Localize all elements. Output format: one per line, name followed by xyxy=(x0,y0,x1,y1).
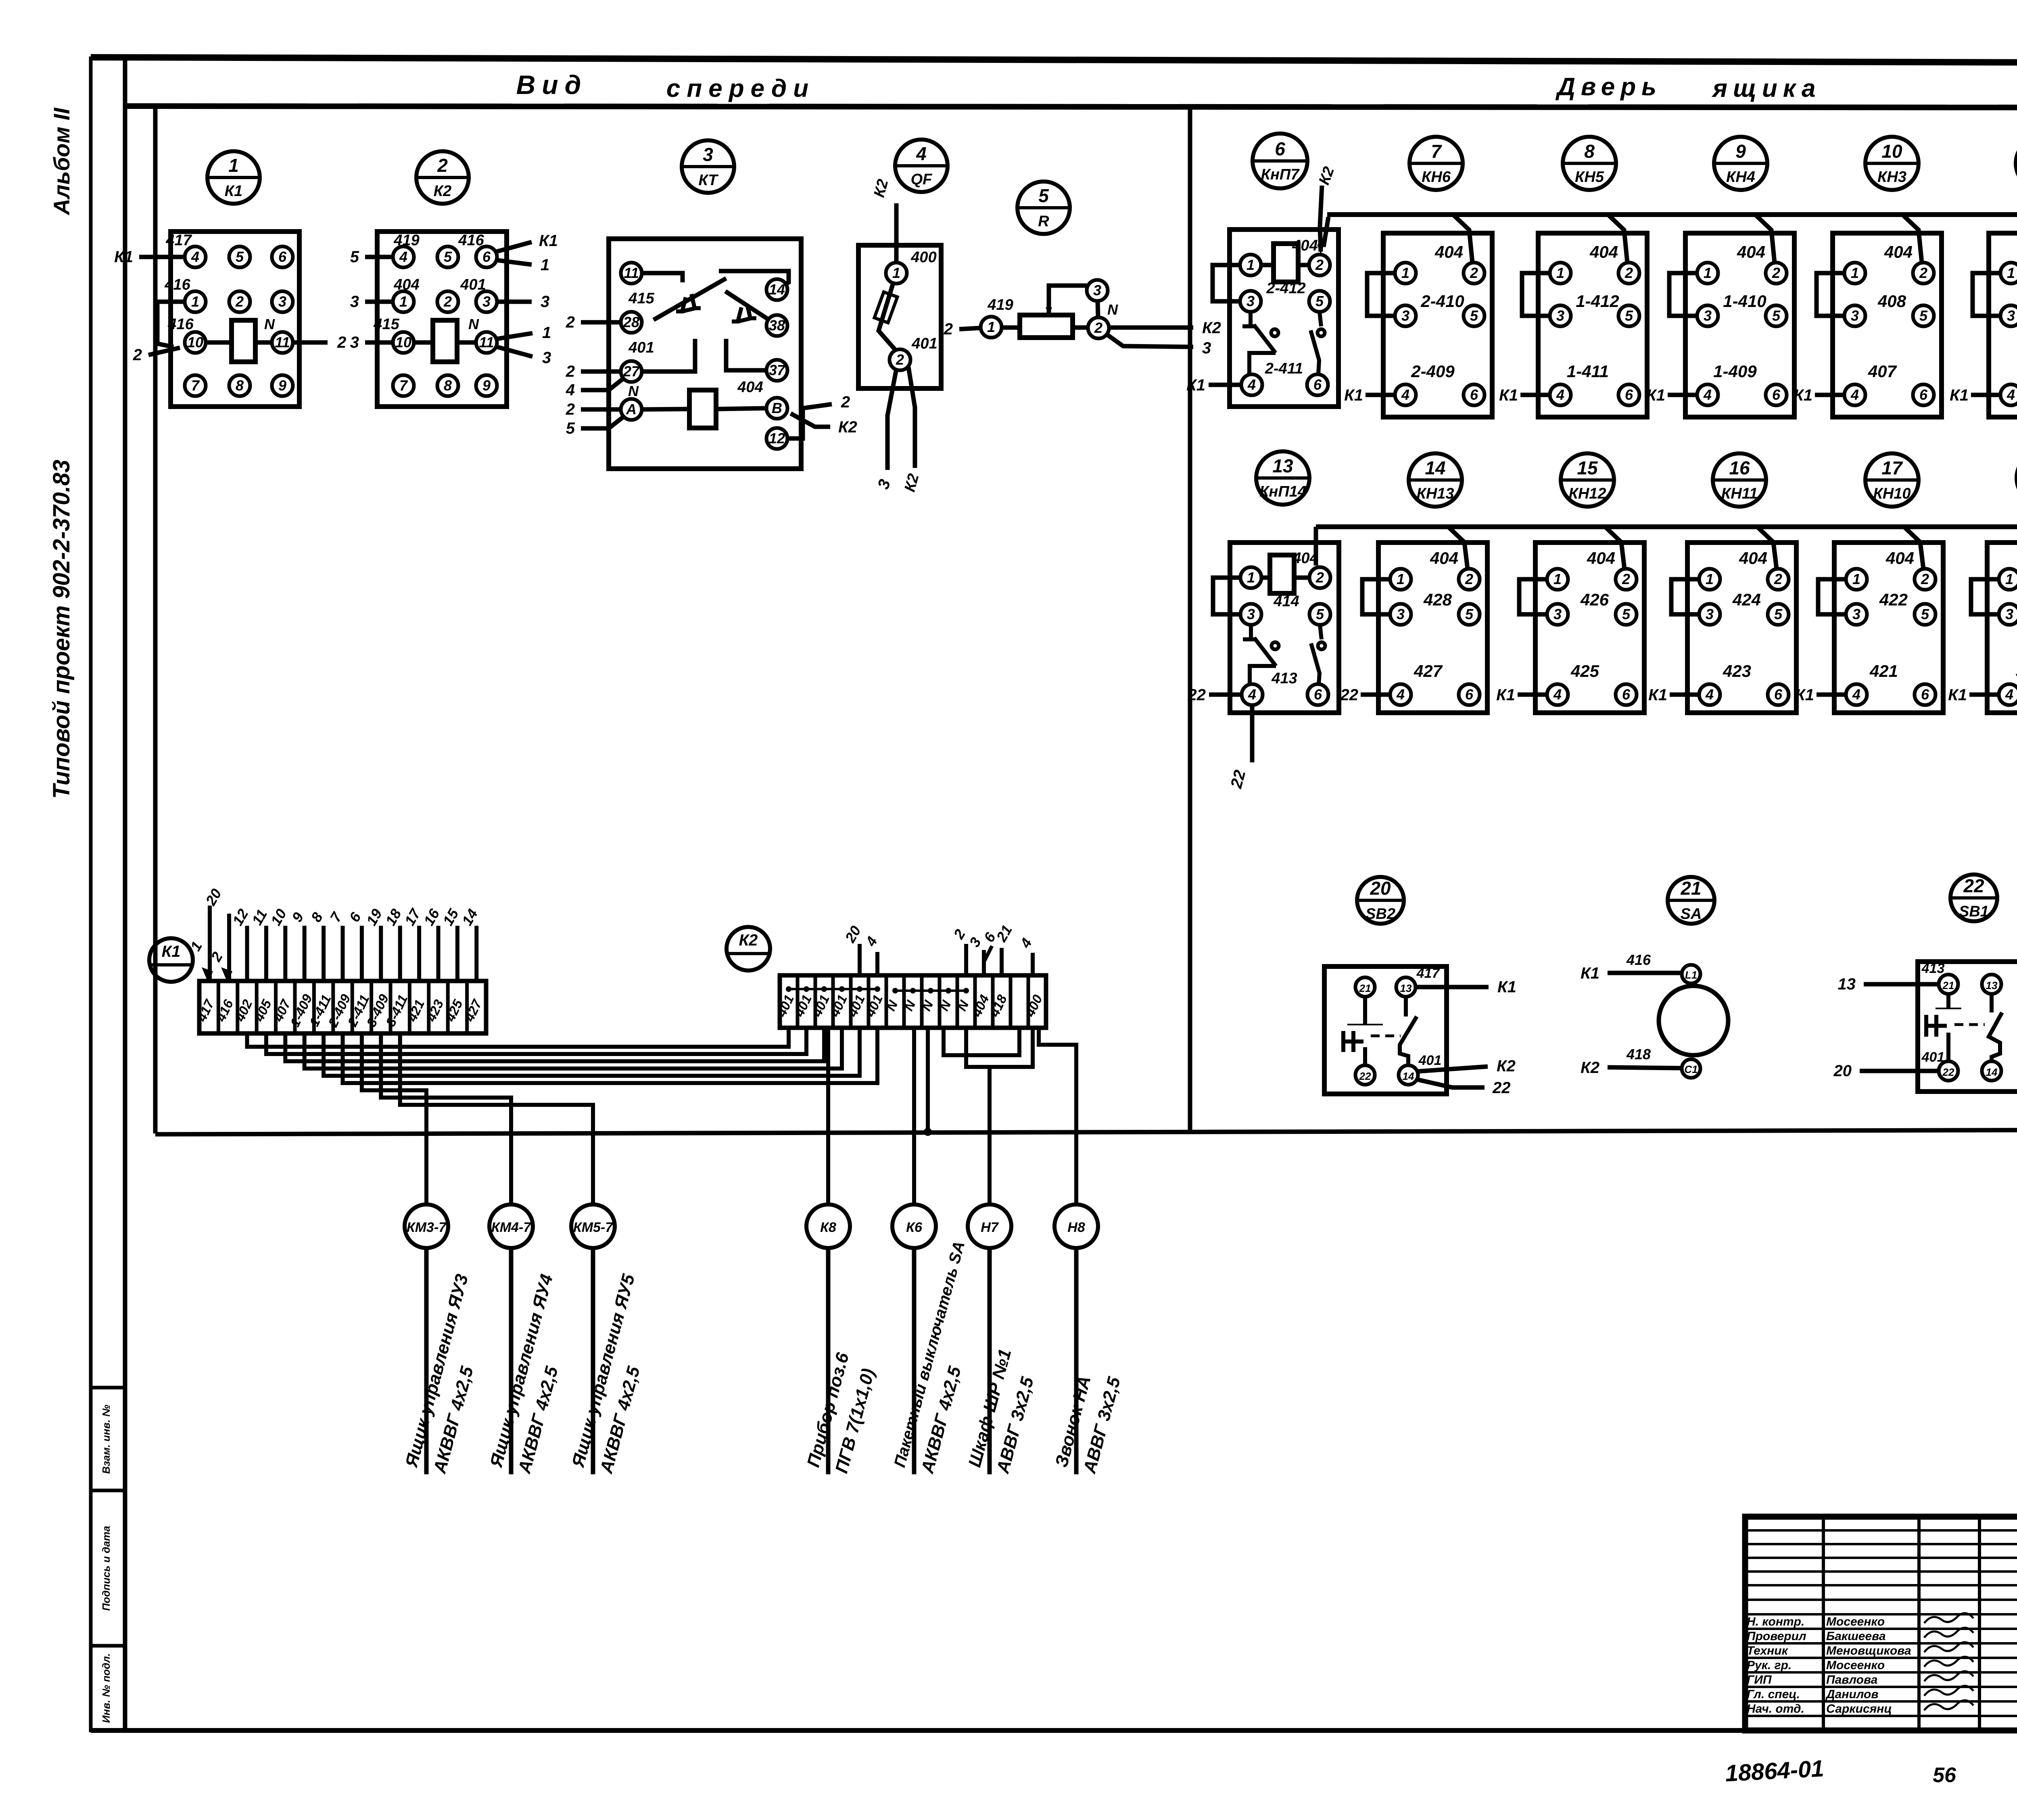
pin 1 xyxy=(1240,567,1261,588)
svg-text:14: 14 xyxy=(769,281,785,298)
timed contact 1 arm xyxy=(654,278,726,320)
SB2 NC contact with plunger xyxy=(1363,997,1367,1025)
block outline xyxy=(1987,543,2017,713)
svg-text:401: 401 xyxy=(628,339,654,356)
svg-text:QF: QF xyxy=(911,171,933,188)
svg-text:КН3: КН3 xyxy=(1877,169,1906,186)
pin 3 xyxy=(1550,305,1571,326)
wire coil-11 xyxy=(255,340,272,345)
K2 pin 2 xyxy=(437,291,458,312)
wire coil-11 xyxy=(457,340,476,345)
pin 3 xyxy=(2000,305,2017,326)
svg-text:Взам. инв. №: Взам. инв. № xyxy=(100,1405,112,1474)
svg-text:416: 416 xyxy=(458,232,484,249)
pin 1 xyxy=(1240,255,1261,276)
svg-text:15: 15 xyxy=(1577,457,1598,478)
svg-text:К2: К2 xyxy=(739,931,758,949)
timed contact 1 fork xyxy=(676,297,686,311)
svg-text:К1: К1 xyxy=(1581,964,1599,982)
K1 strip feeder 1 with arrow xyxy=(208,906,212,981)
pin 6 xyxy=(1616,684,1637,705)
margin box Подпись и дата xyxy=(91,1490,125,1646)
lead K2 from pin B xyxy=(791,413,830,427)
block outline xyxy=(1383,233,1492,417)
component id circle 13/КнП14 xyxy=(1256,451,1309,505)
svg-text:3: 3 xyxy=(1556,307,1564,324)
svg-text:К1: К1 xyxy=(1186,376,1205,394)
svg-text:5: 5 xyxy=(1038,185,1049,206)
pin 3 xyxy=(1240,604,1261,625)
cable line К6 xyxy=(912,1248,917,1474)
svg-text:1: 1 xyxy=(1706,571,1714,587)
svg-text:2: 2 xyxy=(1315,257,1324,273)
lead 22 from pin 14 xyxy=(1417,1079,1485,1087)
block outline xyxy=(1687,543,1796,713)
svg-text:1: 1 xyxy=(541,256,549,274)
svg-text:5: 5 xyxy=(444,248,452,265)
svg-text:21: 21 xyxy=(1359,982,1371,994)
jumper wire pins 1-3 xyxy=(1522,273,1550,316)
svg-text:56: 56 xyxy=(1933,1764,1956,1787)
relay KN3 (item 10) xyxy=(1794,215,1942,417)
K2 pin 6 xyxy=(476,246,497,267)
component id circle 2/К2 xyxy=(416,151,469,204)
svg-text:417: 417 xyxy=(165,232,192,249)
pin 5 xyxy=(1915,604,1936,625)
svg-text:5: 5 xyxy=(1622,606,1631,622)
svg-text:5: 5 xyxy=(1921,606,1929,622)
svg-text:3: 3 xyxy=(542,349,551,367)
svg-text:10: 10 xyxy=(1881,141,1902,162)
KT pin 11 xyxy=(621,263,642,284)
svg-text:Подпись и дата: Подпись и дата xyxy=(100,1526,112,1611)
margin box Взам. инв. № xyxy=(91,1388,125,1490)
svg-text:408: 408 xyxy=(1877,292,1906,311)
svg-text:К1: К1 xyxy=(162,943,181,960)
svg-text:1-411: 1-411 xyxy=(1567,362,1609,381)
svg-text:416: 416 xyxy=(1626,952,1651,968)
component id circle 14/КН13 xyxy=(1409,453,1462,507)
K1 pin 8 xyxy=(229,375,250,396)
svg-text:418: 418 xyxy=(1626,1046,1651,1062)
svg-text:21: 21 xyxy=(1680,878,1701,899)
component id circle 1/К1 xyxy=(207,151,260,204)
pin 1 xyxy=(2000,263,2017,284)
lead К1 to pin 4 xyxy=(1971,393,2000,397)
svg-text:Дверь: Дверь xyxy=(1555,73,1662,101)
jumper wire pins 1-3 xyxy=(1971,579,1999,614)
SB2 pin 22 xyxy=(1355,1065,1375,1085)
K1 pin 4 xyxy=(185,246,206,267)
internal wire pin11 xyxy=(642,273,683,282)
K2 pin 7 xyxy=(393,375,414,396)
lead 2 xyxy=(959,328,981,329)
svg-text:1: 1 xyxy=(1553,571,1562,587)
pin 6 xyxy=(1464,384,1485,405)
cable line КМ4-7 xyxy=(509,1248,514,1474)
svg-text:К1: К1 xyxy=(1950,386,1969,404)
lead К1 to pin 4 xyxy=(1815,393,1844,397)
pin 1 xyxy=(1844,263,1865,284)
svg-text:10: 10 xyxy=(187,334,203,351)
lead 20 to pin 22 xyxy=(1860,1069,1939,1073)
svg-text:419: 419 xyxy=(987,296,1013,313)
svg-text:6: 6 xyxy=(1470,386,1478,403)
svg-text:425: 425 xyxy=(1570,662,1599,680)
svg-text:2: 2 xyxy=(1624,265,1633,281)
circuit breaker QF (item 4) xyxy=(858,177,941,494)
SB2 pin 21 xyxy=(1355,977,1375,997)
svg-text:4: 4 xyxy=(191,248,199,265)
svg-text:2: 2 xyxy=(896,351,904,368)
svg-text:22: 22 xyxy=(1963,875,1984,896)
cable feed wire to K6 xyxy=(912,1028,916,1204)
svg-text:1: 1 xyxy=(542,324,551,342)
svg-text:Вид: Вид xyxy=(516,70,588,100)
svg-text:В: В xyxy=(772,400,782,416)
lead 2 from pin B xyxy=(803,404,832,408)
K2 strip top stub 3 and 6 xyxy=(982,950,986,975)
wire pin1-coil xyxy=(1261,576,1270,580)
component id circle 21/SA xyxy=(1668,877,1714,924)
svg-text:37: 37 xyxy=(769,362,786,378)
svg-text:6: 6 xyxy=(1774,686,1783,703)
svg-text:415: 415 xyxy=(373,316,399,333)
K1 pin 7 xyxy=(185,375,206,396)
timed contact 2 fork xyxy=(732,307,741,321)
svg-text:416: 416 xyxy=(164,276,190,293)
svg-text:5: 5 xyxy=(1465,606,1474,622)
lead K2 from pin 14 xyxy=(1418,1067,1488,1071)
svg-text:8: 8 xyxy=(444,377,452,394)
wire 404 bus drop to pin 2 xyxy=(1605,527,1624,569)
svg-text:426: 426 xyxy=(1580,590,1609,609)
svg-text:5: 5 xyxy=(350,248,359,266)
pin 3 xyxy=(1240,291,1261,312)
svg-text:11: 11 xyxy=(479,334,494,351)
lead 3 from pin 3 xyxy=(497,300,532,304)
svg-text:2: 2 xyxy=(1470,265,1478,281)
svg-text:2: 2 xyxy=(1772,265,1780,281)
svg-text:3: 3 xyxy=(278,293,286,310)
header band bottom line xyxy=(125,106,2017,108)
svg-text:6: 6 xyxy=(1275,138,1285,159)
block outline xyxy=(1230,230,1338,407)
component id circle 18/КН9 xyxy=(2017,451,2017,505)
svg-text:3: 3 xyxy=(482,293,491,310)
KT pin A xyxy=(621,399,642,420)
svg-text:6: 6 xyxy=(1772,386,1781,403)
svg-text:9: 9 xyxy=(278,377,286,394)
push-button SB2 (item 20) xyxy=(1324,966,1516,1097)
jumper wire pins 1-3 xyxy=(1213,578,1240,614)
SB1 outline xyxy=(1918,962,2017,1092)
pin 5 xyxy=(1766,305,1787,326)
jumper 1-10 xyxy=(157,302,185,347)
lead 5 to pin 4 xyxy=(365,255,393,259)
svg-text:1: 1 xyxy=(228,155,239,176)
sheet frame inner-left line xyxy=(123,59,127,1730)
wire 10-coil xyxy=(414,340,433,345)
K2 pin 3 xyxy=(476,291,497,312)
lead 3 from pin 11 xyxy=(497,347,532,357)
svg-text:12: 12 xyxy=(769,430,785,447)
svg-text:428: 428 xyxy=(1423,590,1452,609)
component id circle 11/КН2 xyxy=(2016,137,2017,190)
wire 404 bus row 2 xyxy=(1316,524,2017,529)
pin 2 xyxy=(1913,263,1934,284)
svg-text:N: N xyxy=(468,316,479,332)
pin 3 xyxy=(1547,604,1568,625)
wire 802-2131 xyxy=(324,1028,860,1076)
svg-text:4: 4 xyxy=(916,143,927,164)
cable tag К6 xyxy=(891,1204,968,1476)
svg-text:К1: К1 xyxy=(1794,386,1812,404)
svg-text:8: 8 xyxy=(236,377,244,394)
svg-text:400: 400 xyxy=(910,249,936,266)
lead К1 to pin 4 xyxy=(1209,383,1241,387)
SA terminal L1 xyxy=(1682,965,1700,983)
svg-text:1: 1 xyxy=(399,293,407,310)
K2 pin 5 xyxy=(437,246,458,267)
auxiliary contact pins 5-6 xyxy=(1320,625,1322,639)
wire 404 bus drop to pin 2 xyxy=(1902,215,1922,263)
KT pin 37 xyxy=(766,360,787,381)
svg-text:20: 20 xyxy=(1370,878,1391,899)
svg-text:R: R xyxy=(1038,213,1049,230)
pin 4 xyxy=(1390,684,1411,705)
svg-text:1: 1 xyxy=(1852,571,1860,587)
svg-text:SB2: SB2 xyxy=(1366,906,1395,923)
wire 404 bus drop to pin 2 xyxy=(1448,527,1468,569)
svg-text:Саркисянц: Саркисянц xyxy=(1826,1702,1892,1716)
wire coil-pin2 xyxy=(1294,576,1309,580)
SB1 pin 22 xyxy=(1939,1061,1958,1081)
svg-text:К1: К1 xyxy=(1948,686,1967,704)
svg-text:5: 5 xyxy=(1919,307,1928,324)
pin 4 xyxy=(1846,684,1867,705)
button-relay KnP14 (item 13) xyxy=(1188,543,1339,713)
cable tag КМ5-7 xyxy=(568,1204,644,1476)
svg-text:4: 4 xyxy=(1247,376,1256,393)
harness wires K1 strip to K2 strip xyxy=(247,1028,878,1083)
pin 5 xyxy=(1309,604,1330,625)
svg-text:14: 14 xyxy=(1986,1066,1998,1078)
relay KN12 (item 15) xyxy=(1496,527,1644,713)
svg-text:21: 21 xyxy=(1942,979,1954,991)
K2 strip top stub 2 xyxy=(964,944,968,975)
svg-text:7: 7 xyxy=(1431,141,1442,162)
svg-text:4: 4 xyxy=(566,381,575,399)
svg-text:2: 2 xyxy=(337,334,346,351)
wire 659-1999 xyxy=(266,1028,806,1054)
svg-text:К2: К2 xyxy=(1581,1059,1599,1077)
svg-text:401: 401 xyxy=(911,335,937,352)
cable tag КМ3-7 xyxy=(401,1204,477,1476)
pin 4 xyxy=(1242,684,1263,705)
svg-text:2: 2 xyxy=(566,363,575,380)
pin 1 xyxy=(1846,569,1867,590)
pin 3 xyxy=(1697,305,1718,326)
K1 pin 3 xyxy=(272,291,293,312)
terminal block K2 id circle xyxy=(727,927,770,971)
svg-text:3: 3 xyxy=(1704,307,1712,324)
auxiliary contact pins 3-4 xyxy=(1249,312,1253,326)
K2 pin 4 xyxy=(393,246,414,267)
svg-text:КН12: КН12 xyxy=(1568,485,1606,502)
K2 strip top stub 20 xyxy=(858,944,862,975)
svg-text:1: 1 xyxy=(1397,571,1405,587)
lead 4 to pin 27 xyxy=(581,378,624,390)
svg-text:К6: К6 xyxy=(906,1220,923,1235)
lead К1 to pin 4 xyxy=(1670,693,1699,697)
svg-text:2: 2 xyxy=(1094,319,1102,336)
svg-text:4: 4 xyxy=(399,248,407,265)
svg-text:1: 1 xyxy=(2005,571,2013,587)
SB1 dashed link xyxy=(1954,1023,1985,1026)
svg-text:5: 5 xyxy=(1315,293,1324,309)
component id circle 22/SB1 xyxy=(1950,875,1997,921)
KT outline xyxy=(609,239,801,469)
sheet outer border left xyxy=(89,56,93,1730)
svg-text:Рук. гр.: Рук. гр. xyxy=(1747,1659,1791,1672)
svg-text:8: 8 xyxy=(1584,141,1595,162)
svg-text:3: 3 xyxy=(1401,307,1409,324)
relay KN5 (item 8) xyxy=(1499,215,1647,417)
svg-text:4: 4 xyxy=(1553,686,1562,703)
svg-text:22: 22 xyxy=(1942,1066,1954,1078)
svg-text:4: 4 xyxy=(1705,686,1714,703)
svg-text:Мосеенко: Мосеенко xyxy=(1826,1615,1885,1628)
jumper wire pins 1-3 xyxy=(1213,265,1240,301)
svg-text:2: 2 xyxy=(841,393,850,411)
cable tag Н8 xyxy=(1051,1204,1124,1476)
svg-text:2-411: 2-411 xyxy=(1265,360,1303,377)
terminal strip K2 xyxy=(774,975,1046,1028)
jumper dots across N cells xyxy=(895,989,966,992)
component id circle 7/КН6 xyxy=(1409,137,1463,190)
lead К1 to pin 4 xyxy=(1969,693,1999,697)
title block left table horizontals xyxy=(1745,1529,2017,1532)
svg-text:К1: К1 xyxy=(1344,386,1363,404)
svg-text:Инв. № подл.: Инв. № подл. xyxy=(100,1653,112,1723)
svg-text:КМ4-7: КМ4-7 xyxy=(491,1220,532,1235)
svg-text:К1: К1 xyxy=(1646,386,1665,404)
svg-text:Бакшеева: Бакшеева xyxy=(1826,1630,1886,1643)
pin 1 xyxy=(1395,263,1416,284)
lead 2 from pin 11 xyxy=(293,340,328,345)
pin 1 xyxy=(1390,569,1411,590)
cable tag КМ4-7 xyxy=(486,1204,562,1476)
sheet frame bottom line xyxy=(91,1728,2017,1733)
K2 strip top stub 4 right xyxy=(1031,953,1035,975)
SB1 pin 21 xyxy=(1939,975,1958,994)
lead К1 to pin 4 xyxy=(1518,693,1547,697)
K2 strip top stub 21 xyxy=(1000,948,1004,975)
svg-text:КнП14: КнП14 xyxy=(1259,483,1306,500)
svg-text:1-410: 1-410 xyxy=(1723,292,1766,311)
svg-text:Павлова: Павлова xyxy=(1826,1673,1877,1686)
component id circle 16/КН11 xyxy=(1713,453,1766,507)
svg-text:415: 415 xyxy=(628,290,654,307)
lead 1 from pin 6 xyxy=(497,260,532,265)
pin 6 xyxy=(1459,684,1480,705)
lead K1 from pin 6 xyxy=(496,242,532,252)
pin 4 xyxy=(1844,384,1865,405)
svg-text:6: 6 xyxy=(1314,686,1322,703)
svg-text:2-412: 2-412 xyxy=(1266,280,1305,297)
SB2 dashed link xyxy=(1371,1035,1401,1037)
pin 4 xyxy=(1550,384,1571,405)
lead K1 to pin 4 xyxy=(139,255,185,259)
svg-text:9: 9 xyxy=(482,377,491,394)
svg-text:2: 2 xyxy=(1919,265,1927,281)
component id circle 6/КнП7 xyxy=(1253,134,1307,188)
component id circle 15/КН12 xyxy=(1561,453,1614,507)
svg-text:L1: L1 xyxy=(1685,969,1697,981)
wire pin1-body xyxy=(1002,326,1020,330)
svg-text:401: 401 xyxy=(1418,1053,1442,1068)
svg-text:К1: К1 xyxy=(539,232,558,250)
pin 2 xyxy=(1768,569,1789,590)
svg-text:401: 401 xyxy=(460,276,486,293)
cable feed wire to N7 xyxy=(966,1028,1033,1067)
svg-text:ящика: ящика xyxy=(1711,75,1821,102)
svg-text:К8: К8 xyxy=(820,1220,836,1235)
wire 754-2087 xyxy=(305,1028,842,1069)
svg-text:1: 1 xyxy=(1704,265,1712,281)
svg-text:3: 3 xyxy=(2005,606,2013,622)
svg-text:Данилов: Данилов xyxy=(1825,1688,1879,1701)
jumper wire pins 1-3 xyxy=(1818,579,1846,614)
svg-text:Гл. спец.: Гл. спец. xyxy=(1747,1688,1800,1701)
svg-text:3: 3 xyxy=(2007,307,2015,324)
svg-text:4: 4 xyxy=(1396,686,1405,703)
svg-text:3: 3 xyxy=(1553,606,1562,622)
internal top wire to pin 14 xyxy=(719,271,789,285)
svg-text:13: 13 xyxy=(1272,455,1293,476)
svg-text:КН10: КН10 xyxy=(1873,485,1911,502)
svg-text:3: 3 xyxy=(350,293,359,311)
wire 404 bus drop to pin 2 xyxy=(1755,215,1775,263)
relay KN2 (item 11) xyxy=(1950,215,2017,417)
wire pin12 to B lead xyxy=(787,409,803,438)
svg-text:спереди: спереди xyxy=(666,75,815,102)
lead 22 to pin 4 xyxy=(1209,693,1242,697)
pin 2 xyxy=(1618,263,1639,284)
K1 pin 9 xyxy=(272,375,293,396)
component id circle 9/КН4 xyxy=(1714,137,1767,190)
auxiliary contact pins 5-6 xyxy=(1320,312,1321,326)
cable line Н7 xyxy=(988,1248,992,1474)
wire body-pin2 xyxy=(1073,326,1088,330)
svg-text:13: 13 xyxy=(1400,982,1412,994)
pin 2 xyxy=(1464,263,1485,284)
wire 404 bus row2 drop into KnP14 pin2 xyxy=(1314,527,1318,566)
svg-text:2: 2 xyxy=(944,320,953,338)
door box divider (left edge of door area) xyxy=(1188,106,1192,1133)
pin 6 xyxy=(1766,384,1787,405)
packet switch SA (item 21) xyxy=(1581,952,1728,1078)
pin 3 xyxy=(1846,604,1867,625)
svg-text:2: 2 xyxy=(133,346,142,364)
jumper wire pins 1-3 xyxy=(1817,273,1844,316)
pin 2 xyxy=(1309,567,1330,588)
jumper wire pins 1-3 xyxy=(1973,273,2000,316)
svg-text:А: А xyxy=(626,401,637,417)
K1 strip feeder 2 with arrow xyxy=(227,914,231,981)
jumper wire pins 1-3 xyxy=(1671,579,1699,614)
